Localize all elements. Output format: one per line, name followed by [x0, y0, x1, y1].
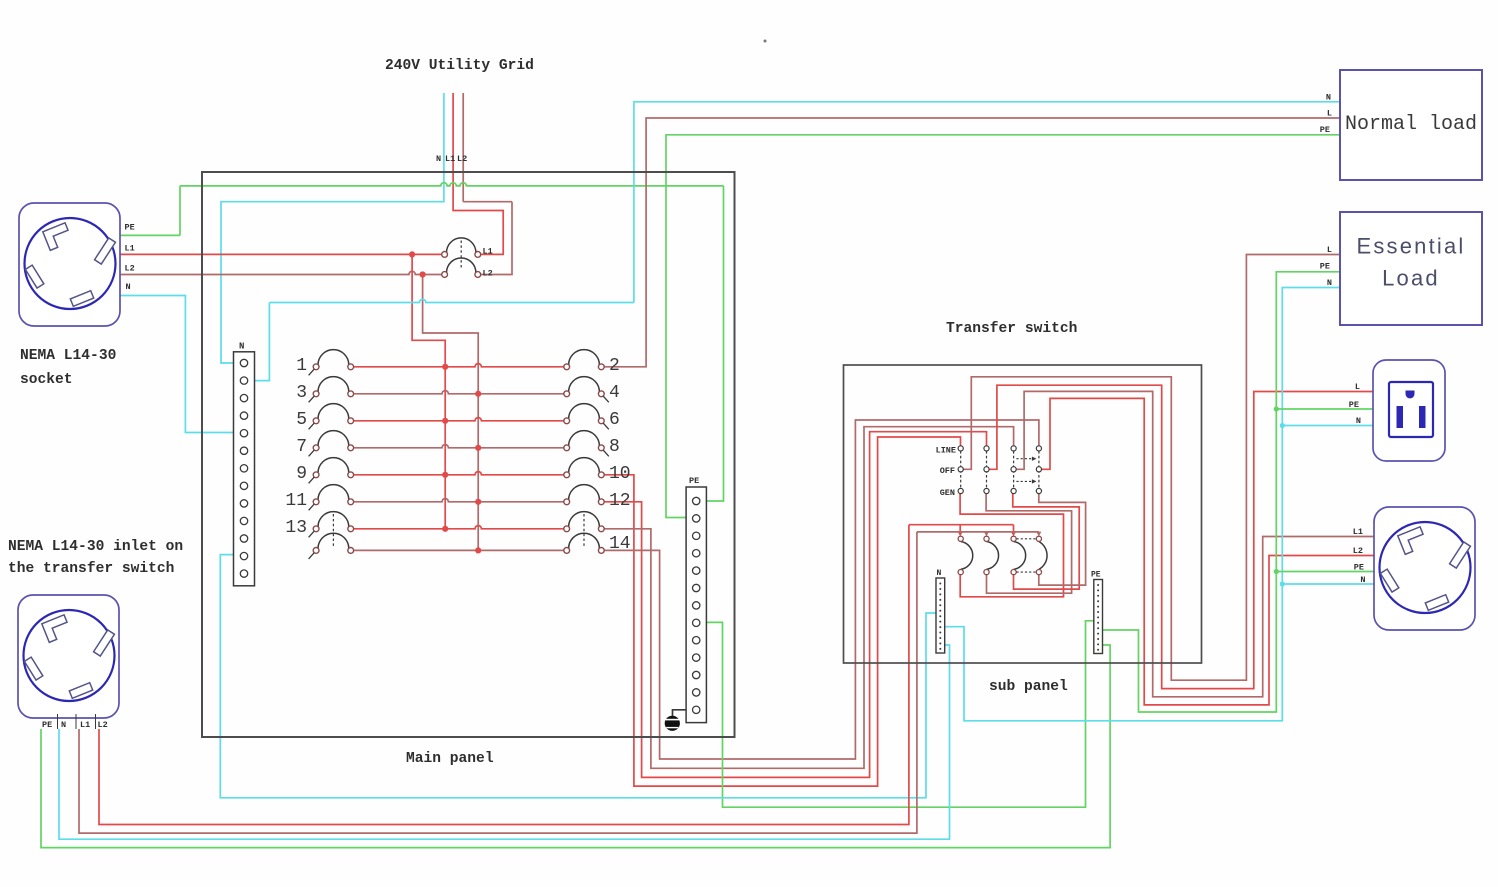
wire main N bus to sub panel N bus (cyan): [220, 555, 936, 798]
svg-text:PE: PE: [1354, 563, 1364, 573]
label Main panel: [406, 751, 494, 767]
svg-text:3: 3: [296, 383, 307, 403]
wire L2 bus vertical in main panel (dark red): [423, 275, 479, 551]
svg-text:1: 1: [296, 356, 307, 376]
svg-text:L: L: [1355, 382, 1360, 392]
wire utility-L1 drop to main breaker (red): [453, 93, 503, 254]
svg-text:N: N: [61, 720, 66, 730]
wire breaker row 13b-14b: [354, 547, 564, 553]
wire OFF 1 to Essential Load L (red): [963, 255, 1340, 681]
wire L1 from NEMA socket to main breaker (red): [120, 253, 441, 255]
wire inlet L2 to transfer switch breaker feed A (red): [99, 525, 1016, 825]
wire breaker row 9-10: [354, 472, 564, 478]
ground symbol: [665, 716, 680, 731]
svg-text:10: 10: [609, 464, 631, 484]
svg-text:L2: L2: [457, 154, 467, 164]
svg-text:4: 4: [609, 383, 620, 403]
svg-text:N: N: [1326, 93, 1331, 103]
transfer switch breakers: [958, 536, 1047, 575]
svg-text:sub panel: sub panel: [989, 679, 1068, 695]
transfer switch selector contacts (LINE/OFF/GEN): [936, 445, 1042, 498]
main panel enclosure: [202, 172, 735, 737]
wire breaker row 3-4: [354, 391, 564, 397]
svg-text:Transfer switch: Transfer switch: [946, 321, 1077, 337]
wire sub panel N to right loads (cyan): [945, 288, 1374, 721]
svg-text:240V Utility Grid: 240V Utility Grid: [385, 58, 534, 74]
svg-text:L1: L1: [125, 244, 135, 254]
svg-text:9: 9: [296, 464, 307, 484]
wire sub panel PE to right loads (green): [1103, 272, 1375, 712]
svg-text:socket: socket: [20, 372, 73, 388]
svg-text:L2: L2: [483, 269, 493, 279]
svg-text:L1: L1: [1353, 527, 1363, 537]
svg-text:5: 5: [296, 410, 307, 430]
svg-text:Normal load: Normal load: [1345, 113, 1477, 136]
wire breaker row 13-14: [354, 526, 564, 532]
svg-text:N: N: [126, 282, 131, 292]
wire breaker row 1-2: [354, 364, 564, 370]
wire L1 bus vertical in main panel (red): [412, 254, 445, 528]
sub panel N bus: [936, 569, 945, 653]
Normal load box: [1320, 70, 1482, 180]
svg-text:12: 12: [609, 491, 631, 511]
svg-text:7: 7: [296, 437, 307, 457]
wire utility-N drop from 240V grid (cyan): [221, 93, 444, 363]
label sub panel: [989, 679, 1068, 695]
transfer switch enclosure: [844, 365, 1202, 663]
svg-text:PE: PE: [1349, 400, 1359, 410]
breaker number labels: [285, 356, 630, 554]
branch breakers rows: [309, 350, 609, 559]
svg-text:L: L: [1327, 109, 1332, 119]
wire N from NEMA socket to main N bus (cyan): [120, 296, 235, 433]
wire breaker 14b to transfer switch LINE 4 (dark red): [604, 420, 1039, 759]
svg-text:L1: L1: [483, 247, 493, 257]
label Transfer switch: [946, 321, 1077, 337]
wire N bus to Normal load (cyan): [255, 102, 1340, 381]
junction dot L2 at main breaker: [420, 271, 426, 277]
svg-text:PE: PE: [1320, 125, 1330, 135]
sub panel PE bus: [1091, 571, 1103, 654]
label NEMA L14-30 inlet: [8, 539, 183, 577]
label NEMA L14-30 socket: [20, 348, 116, 388]
svg-text:N: N: [1327, 278, 1332, 288]
wire breaker 14a to transfer switch LINE 3 (dark red): [604, 427, 1013, 769]
svg-text:2: 2: [609, 356, 620, 376]
wire breaker row 11-12: [354, 499, 564, 505]
svg-text:N: N: [239, 342, 244, 352]
wire breaker 10 to transfer switch LINE 1 (red): [604, 437, 960, 786]
wire main PE bus to sub panel PE bus (green): [706, 621, 1093, 807]
wire inlet PE to sub panel PE bus (green): [41, 645, 1110, 848]
svg-text:N: N: [1356, 416, 1361, 426]
label 240V Utility Grid: [385, 58, 534, 74]
NEMA L14-30 socket (top left): [19, 203, 135, 326]
wire GEN 3 to TS breaker 3 (red): [1013, 494, 1079, 590]
wire GEN 1 to TS breaker 1 (red): [960, 494, 1063, 597]
wire OFF 4 to right socket L2 (red): [1042, 398, 1375, 705]
Essential Load box: [1320, 212, 1482, 325]
stray dot: [764, 40, 767, 43]
wall outlet (NEMA 5-15): [1349, 360, 1445, 461]
svg-text:the transfer switch: the transfer switch: [8, 561, 174, 577]
svg-text:Main panel: Main panel: [406, 751, 494, 767]
wire inlet L1 to transfer switch breaker feed B (dark red): [79, 532, 1041, 833]
svg-text:L2: L2: [125, 263, 135, 273]
svg-text:N: N: [937, 569, 942, 578]
wire L2 from NEMA socket to main breaker (dark red): [120, 271, 441, 274]
wire GEN 4 to TS breaker 4 (dark red): [1039, 494, 1086, 586]
svg-text:PE: PE: [689, 476, 699, 486]
wire breaker 12 to transfer switch LINE 2 (red): [604, 432, 986, 778]
svg-text:OFF: OFF: [940, 466, 955, 476]
svg-text:PE: PE: [42, 720, 52, 730]
svg-text:N: N: [436, 154, 441, 164]
wire breaker row 5-6: [354, 418, 564, 424]
svg-text:L2: L2: [1353, 546, 1363, 556]
wire PE from NEMA socket to main PE bus (green): [120, 183, 724, 501]
svg-text:PE: PE: [125, 223, 135, 233]
svg-text:GEN: GEN: [940, 488, 955, 498]
svg-text:11: 11: [285, 491, 307, 511]
wire OFF 3 to right socket L1 (dark red): [1016, 391, 1374, 696]
svg-text:L1: L1: [80, 720, 90, 730]
svg-text:Load: Load: [1382, 266, 1440, 291]
NEMA L14-30 inlet (bottom left): [18, 595, 119, 730]
wire main PE bus to Normal load PE (green): [666, 135, 1340, 518]
main panel N bus bar: [234, 342, 255, 586]
NEMA L14-30 socket (right): [1353, 507, 1475, 630]
main panel PE bus bar: [686, 476, 706, 723]
wire utility-L2 drop to main breaker (dark red): [463, 93, 512, 275]
labels N L1 L2 at panel top: [436, 154, 467, 164]
wire inlet N to sub panel N bus (cyan): [59, 645, 950, 839]
svg-text:L: L: [1327, 245, 1332, 255]
svg-text:6: 6: [609, 410, 620, 430]
svg-text:NEMA L14-30: NEMA L14-30: [20, 348, 116, 364]
svg-text:PE: PE: [1091, 571, 1101, 580]
svg-text:PE: PE: [1320, 262, 1330, 272]
svg-text:L1: L1: [445, 154, 455, 164]
wire PE bus to ground symbol: [673, 710, 692, 716]
svg-text:L2: L2: [98, 720, 108, 730]
svg-text:13: 13: [285, 518, 307, 538]
svg-text:14: 14: [609, 534, 631, 554]
svg-text:8: 8: [609, 437, 620, 457]
wire breaker row 7-8: [354, 445, 564, 451]
junction dot L1 at main breaker: [409, 251, 415, 257]
wire OFF 2 to wall outlet L (red): [989, 385, 1373, 688]
main breaker 2-pole (L1/L2): [442, 238, 493, 279]
svg-text:LINE: LINE: [936, 445, 956, 455]
wire GEN 2 to TS breaker 2 (dark red): [986, 494, 1072, 594]
wire breaker 2 to Normal load L (dark red): [604, 118, 1340, 367]
svg-text:NEMA L14-30 inlet on: NEMA L14-30 inlet on: [8, 539, 183, 555]
svg-text:N: N: [1360, 575, 1365, 585]
svg-text:Essential: Essential: [1356, 234, 1465, 259]
